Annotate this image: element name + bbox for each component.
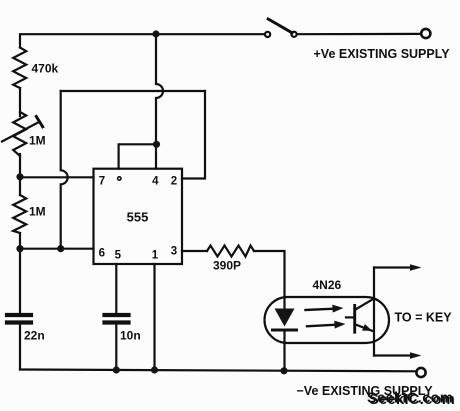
svg-text:3: 3 <box>171 246 177 258</box>
svg-text:22n: 22n <box>24 329 45 343</box>
node: LED cathode / rail <box>280 367 287 374</box>
svg-text:SeekIC.com: SeekIC.com <box>369 392 455 408</box>
switch S1 <box>265 19 297 37</box>
resistor R1 470k <box>13 48 26 89</box>
svg-text:4: 4 <box>152 176 159 188</box>
wire <box>19 154 21 195</box>
phototransistor Q1 (inside opto) <box>346 299 374 333</box>
wire: pin 1 to ground rail <box>153 264 155 370</box>
svg-text:470k: 470k <box>32 62 59 76</box>
wire: pin 3 to R3 <box>182 250 207 252</box>
light arrows (LED to transistor) <box>306 305 346 329</box>
wire: node B to pin 6 <box>20 248 94 250</box>
wire: right vertical of loop down to pin 2 <box>182 91 205 179</box>
pin 8 marker <box>118 177 121 180</box>
arrow: collector output <box>410 264 422 271</box>
node A: junction pot / R2 / pin 7 <box>16 173 23 180</box>
capacitor C1 22n <box>7 315 31 323</box>
svg-text:10n: 10n <box>120 329 141 343</box>
wire: C2 to ground rail <box>115 325 117 370</box>
svg-text:7: 7 <box>99 176 105 188</box>
wire: -V bottom rail <box>20 370 416 372</box>
wire: branch to pin 8 <box>119 144 157 168</box>
optocoupler U2 4N26 body <box>265 297 390 343</box>
svg-text:TO = KEY: TO = KEY <box>395 311 453 325</box>
wire: R3 to LED anode <box>254 251 285 309</box>
wire: collector output to key <box>374 266 412 268</box>
-Ve terminal <box>416 368 425 377</box>
wire: +V rail down to pin 4 (hops over loop wire) <box>156 34 163 169</box>
LED D1 (inside opto) <box>273 309 297 331</box>
svg-text:2: 2 <box>171 176 177 188</box>
potentiometer VR1 1M <box>2 112 43 156</box>
wire: collector/emitter vertical <box>373 268 375 356</box>
resistor R2 1M <box>13 195 26 233</box>
wire: top horizontal of loop <box>61 90 205 92</box>
svg-text:390P: 390P <box>213 259 241 273</box>
wire: node A to pin 7 <box>20 176 94 178</box>
svg-text:5: 5 <box>115 250 122 262</box>
+Ve terminal <box>421 29 430 38</box>
node B: junction R2 / C1 / pin 6 <box>16 245 23 252</box>
wire: LED cathode to rail <box>283 330 285 370</box>
svg-text:+Ve EXISTING SUPPLY: +Ve EXISTING SUPPLY <box>314 47 451 61</box>
svg-text:4N26: 4N26 <box>313 278 342 292</box>
wire: emitter output to key <box>374 354 412 356</box>
arrow: emitter output <box>410 352 422 359</box>
node: pin1 / rail <box>151 366 158 373</box>
svg-text:1M: 1M <box>29 134 46 148</box>
wire: switch to +Ve terminal <box>297 33 421 35</box>
svg-text:6: 6 <box>99 248 105 260</box>
wire <box>19 233 21 313</box>
wire: pin 5 down to C2 <box>115 264 117 313</box>
IC U1 555 body <box>94 169 183 264</box>
wire <box>19 88 21 116</box>
svg-text:555: 555 <box>127 210 149 225</box>
wire: +V top rail <box>20 34 265 47</box>
wire: vertical link pin6 to threshold loop (hops over pin7 wire) <box>61 91 68 249</box>
svg-text:1M: 1M <box>29 205 46 219</box>
node: feedback wire joins pin 6 wire <box>57 245 64 252</box>
svg-text:1: 1 <box>152 250 159 262</box>
resistor R3 390 <box>207 246 254 257</box>
wire: C1 to ground rail <box>19 325 21 370</box>
node: C2 / rail <box>113 366 120 373</box>
node: pin 8 branch junction <box>153 141 160 148</box>
capacitor C2 10n <box>105 315 129 323</box>
node: top rail junction <box>152 30 159 37</box>
